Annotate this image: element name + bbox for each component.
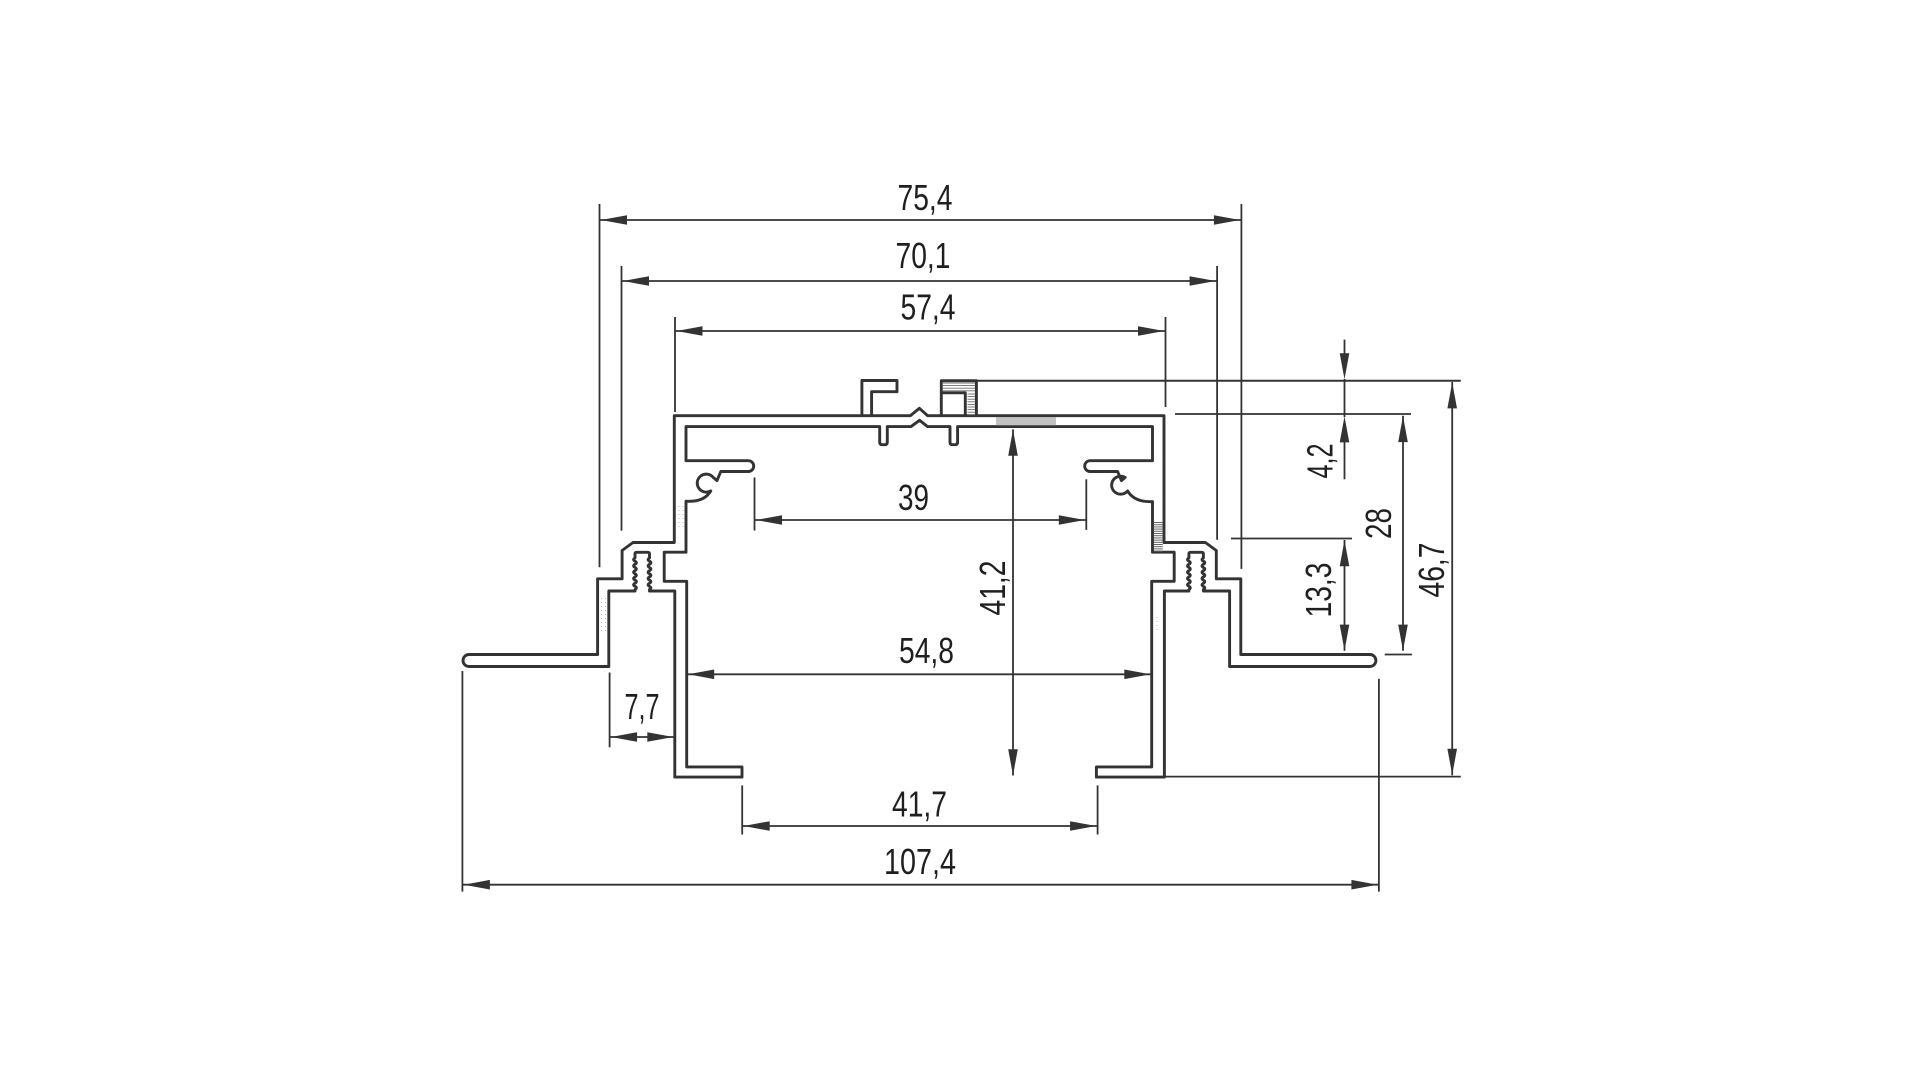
svg-text:70,1: 70,1 [896, 235, 951, 276]
svg-text:28: 28 [1358, 508, 1399, 539]
svg-text:107,4: 107,4 [884, 841, 956, 882]
svg-text:54,8: 54,8 [899, 630, 954, 671]
svg-text:7,7: 7,7 [625, 686, 660, 727]
svg-text:4,2: 4,2 [1300, 444, 1341, 479]
svg-text:41,7: 41,7 [892, 784, 947, 825]
svg-text:13,3: 13,3 [1298, 563, 1339, 618]
svg-text:41,2: 41,2 [972, 561, 1013, 616]
svg-text:39: 39 [898, 477, 929, 518]
svg-text:46,7: 46,7 [1411, 543, 1452, 598]
svg-text:75,4: 75,4 [898, 177, 953, 218]
svg-text:57,4: 57,4 [901, 287, 956, 328]
